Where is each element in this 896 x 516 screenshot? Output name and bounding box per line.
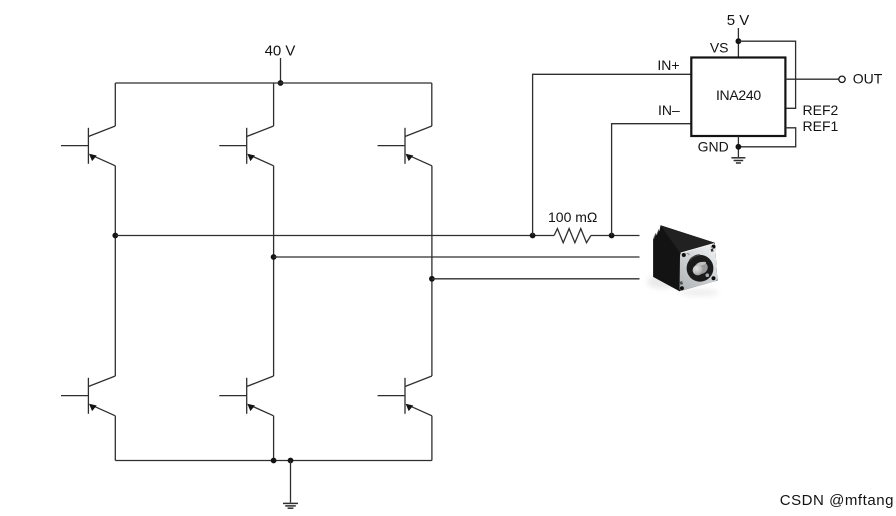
wire Q6 emitter drop (431, 416, 433, 461)
transistor Q4 low-side phase A (61, 376, 115, 416)
wire column A emitter to phase A (114, 166, 116, 376)
transistor Q6 low-side phase C (378, 376, 432, 416)
node Q5 emitter on rail (271, 458, 277, 464)
wire REF2 to 5V (738, 41, 795, 108)
svg-text:INA240: INA240 (716, 87, 761, 103)
wire Q3 collector drop (431, 83, 433, 126)
transistor Q2 high-side phase B (219, 126, 273, 166)
wire bottom ground rail (115, 460, 432, 462)
wire OUT (785, 78, 838, 80)
wire IN+ from resistor left (533, 74, 692, 235)
svg-text:OUT: OUT (853, 71, 883, 87)
svg-text:IN+: IN+ (657, 57, 679, 73)
node resistor right terminal (609, 233, 615, 239)
wire top 40V rail (115, 82, 432, 84)
wire Q5 emitter drop (273, 416, 275, 461)
wire 5V stub to VS pin (737, 28, 739, 58)
wire phase C line to motor (432, 278, 640, 280)
wire Q1 collector drop (114, 83, 116, 126)
svg-text:CSDN @mftang: CSDN @mftang (780, 492, 894, 509)
node GND junction (736, 144, 742, 150)
ground symbol INA240 (731, 158, 745, 163)
svg-text:VS: VS (710, 39, 729, 55)
wire column B emitter to phase B (273, 166, 275, 376)
svg-text:100 mΩ: 100 mΩ (548, 209, 597, 225)
ground symbol bottom (283, 503, 298, 508)
svg-text:40 V: 40 V (265, 43, 296, 60)
node phase C junction (429, 276, 435, 282)
wire column C emitter to phase C (431, 166, 433, 376)
node phase A junction (112, 233, 118, 239)
node OUT terminal circle (839, 76, 845, 82)
svg-text:REF2: REF2 (803, 102, 839, 118)
op-amp U1 INA240 body (691, 58, 785, 137)
wire GND pin stub (737, 136, 739, 157)
svg-text:REF1: REF1 (803, 118, 839, 134)
node VS supply junction (736, 38, 742, 44)
wire IN- from resistor right (612, 124, 692, 236)
node phase B junction (271, 254, 277, 260)
wire REF1 to GND (738, 128, 795, 147)
wire Q2 collector drop (273, 83, 275, 126)
wire ground stub (290, 461, 292, 503)
transistor Q1 high-side phase A (61, 126, 115, 166)
node resistor left terminal (530, 233, 536, 239)
node 40V junction dot (278, 80, 284, 86)
resistor R1 100 mOhm shunt (554, 229, 591, 243)
transistor Q3 high-side phase C (378, 126, 432, 166)
svg-text:IN–: IN– (658, 102, 680, 118)
svg-text:5 V: 5 V (727, 12, 750, 29)
wire phase A line right of resistor (591, 235, 640, 237)
transistor Q5 low-side phase B (219, 376, 273, 416)
svg-text:GND: GND (698, 139, 729, 155)
node ground tap on rail (288, 458, 294, 464)
motor M1 stepper photo (647, 225, 719, 296)
wire Q4 emitter drop (114, 416, 116, 461)
wire phase B line to motor (274, 256, 640, 258)
wire 40V stub (280, 58, 282, 83)
wire phase A line left of resistor (115, 235, 554, 237)
